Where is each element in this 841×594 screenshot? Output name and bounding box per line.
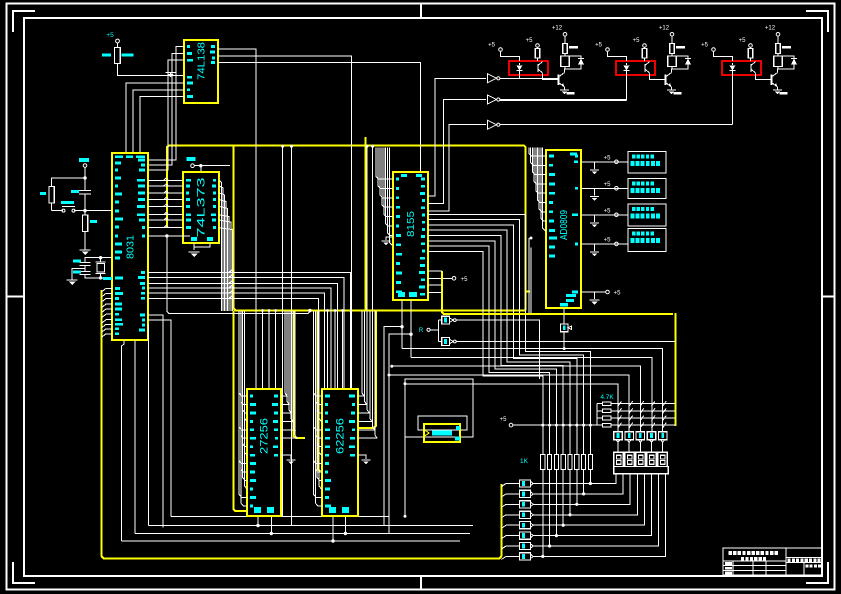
wire bank R5 to riser — [533, 535, 556, 537]
wire bundle 8031 P0 to 74L373 — [148, 179, 183, 181]
wire bank R5 to bus — [502, 536, 520, 539]
svg-text:+5: +5 — [488, 43, 496, 49]
wire 8155 PB0 to inverter 1 — [428, 78, 486, 196]
capacitor C2 — [80, 262, 91, 264]
svg-text:74L373: 74L373 — [196, 178, 208, 238]
resistor R1 pull-up — [115, 48, 121, 64]
wire inverter1 output to opto1 — [500, 77, 559, 79]
ground transistor emitter — [773, 89, 782, 91]
wire bank R4 to riser — [533, 524, 563, 526]
svg-text:+5: +5 — [595, 43, 603, 49]
wire bundle 62256 right pins — [358, 311, 364, 396]
svg-text:8155: 8155 — [406, 210, 417, 237]
U7 bottom pin marks — [254, 507, 261, 513]
center tick bottom — [420, 576, 422, 590]
wire bundle 8155 left pins from bus — [376, 148, 393, 180]
sensor box 1 — [628, 179, 666, 199]
LED display common strip — [614, 467, 669, 474]
svg-text:8031: 8031 — [125, 235, 136, 259]
node reset top — [83, 176, 86, 179]
title block divider vertical — [785, 548, 787, 575]
wire junction to left rail — [384, 327, 402, 526]
wire AD0809 analog input IN1 — [581, 187, 628, 189]
wire bottom long rail 4 — [122, 540, 461, 542]
wire collector up — [777, 67, 780, 73]
U5 bottom pin mark — [560, 303, 568, 307]
wire 74L373 ground pins — [193, 243, 195, 250]
IC U1 body — [112, 153, 148, 340]
wire R to gates — [430, 329, 438, 331]
U7 pin marks right — [274, 395, 278, 398]
relay coil — [564, 54, 566, 57]
wire hops P2 bundle over bus — [229, 270, 234, 272]
IC U7 body — [247, 389, 281, 516]
optocoupler red box — [509, 61, 548, 75]
network resistors to display bus — [603, 402, 612, 406]
wire bottom long rail 1 — [171, 515, 390, 517]
ground sensor 1 — [594, 188, 596, 195]
U5 bottom-right labels — [566, 294, 576, 297]
flyback diode — [565, 56, 581, 59]
opto LED — [626, 63, 628, 65]
optocoupler red box — [616, 61, 655, 75]
svg-text:+5: +5 — [701, 43, 709, 49]
title block left columns — [732, 561, 734, 575]
crossing hops resistor network — [618, 401, 622, 406]
ground AD0809 bottom — [594, 292, 596, 299]
capacitor C1 electrolytic — [84, 178, 86, 191]
U3 bottom pin marks — [191, 237, 197, 241]
wire cap middle node — [84, 266, 86, 272]
wire U2 Y2 output to 8155 CE — [218, 63, 420, 173]
wire bank R7 to riser — [533, 555, 543, 557]
wire pull-up to phototransistor collector — [644, 58, 646, 61]
VCC terminal 74L373 — [187, 157, 196, 161]
svg-text:27256: 27256 — [259, 418, 271, 454]
corner mark top-right — [806, 11, 828, 32]
svg-text:+5: +5 — [633, 38, 641, 44]
transistor Q npn — [771, 75, 773, 86]
wire opto emitter to transistor base — [543, 74, 559, 80]
ground 8155 left — [386, 237, 393, 240]
resistor bank R2 — [520, 501, 531, 508]
transistor Q npn — [665, 75, 667, 86]
resistor bank R7 — [520, 553, 531, 560]
svg-text:+5: +5 — [526, 38, 534, 44]
svg-text:4.7K: 4.7K — [600, 394, 614, 401]
wire data bus vertical C — [366, 147, 368, 311]
wire U2 A input from 8031 — [148, 47, 184, 160]
bus: vertical tap right of 62256 — [358, 311, 376, 429]
wire bank R1 to riser — [533, 493, 583, 495]
title block date text — [806, 565, 809, 568]
title block project name text line2 — [741, 557, 744, 560]
wire bottom long rail 2 — [149, 525, 473, 527]
svg-text:+5: +5 — [614, 291, 622, 297]
wire bank R7 to bus — [502, 556, 520, 559]
wire inverter2 output — [500, 99, 627, 101]
wire bundle 27256 right pins — [281, 311, 287, 396]
sensor box 2 — [628, 204, 666, 226]
corner mark top-left — [13, 11, 35, 32]
wire 8155 PC stubs to port bus — [428, 270, 442, 272]
VCC label reset circuit — [79, 158, 89, 162]
svg-text:AD0809: AD0809 — [559, 210, 570, 240]
module pin marks — [456, 426, 460, 430]
wire 8155 Vcc to +5 terminal — [428, 277, 452, 279]
node reset mid — [83, 209, 86, 212]
wire bundle 8031 P2 to 62256 — [148, 272, 351, 389]
wire 74L373 latch outputs down to memory bus — [219, 180, 222, 311]
wire bank R3 to bus — [502, 515, 520, 518]
wire opto emitter to transistor base — [756, 74, 772, 80]
U4 pin marks left — [396, 178, 399, 181]
U3 pin marks right — [213, 179, 216, 182]
wire emitter to ground — [671, 87, 673, 90]
push button S1 — [52, 210, 64, 212]
wire bundle digit select lines — [402, 349, 663, 433]
ground transistor emitter — [667, 89, 676, 91]
svg-text:+5: +5 — [106, 32, 114, 39]
wire inverter3 output — [500, 124, 733, 126]
bus: main address/data bus top horizontal — [167, 146, 526, 311]
wire pull-up to phototransistor collector — [750, 58, 752, 61]
wire R2 down — [51, 203, 53, 211]
wire XTAL1 pin — [85, 275, 112, 278]
wire node to RST pin — [85, 210, 112, 212]
wire 62256 bottom pin stub — [344, 516, 346, 534]
wire LED cathode drive — [732, 75, 734, 125]
inverter buffer 1 — [488, 74, 497, 83]
wire 8155 bottom pin 2 down — [410, 300, 412, 358]
center tick left — [7, 296, 25, 298]
wire AD0809 analog input IN3 — [581, 243, 628, 245]
node ALE branch — [308, 309, 311, 312]
wire gate A output — [456, 320, 539, 379]
wire pull-up to phototransistor collector — [537, 58, 539, 61]
corner mark bottom-left — [13, 562, 35, 583]
ground 27256 output enable — [281, 455, 291, 459]
wire 8031 P3 to bottom rail 1 — [148, 315, 163, 528]
wire caps to ground — [72, 269, 85, 281]
wire 8031 bottom pin down 2 — [134, 340, 136, 534]
ground sensor 3 — [594, 244, 596, 251]
node 8155 pin2 junction — [409, 333, 412, 336]
bus: right vertical display bus — [674, 313, 676, 426]
wire bank R0 to riser — [533, 483, 590, 485]
ground transistor emitter — [560, 89, 569, 91]
IC U3 body — [183, 172, 219, 243]
center tick right — [822, 296, 835, 298]
ground at 74L138 enable — [170, 73, 172, 76]
wire 27256 bottom pin stub — [270, 516, 272, 534]
wire module left down to rail — [404, 437, 406, 516]
wire +5 to resistor — [117, 43, 119, 48]
wire bundle 8155 PA segment lines — [428, 214, 590, 425]
segment resistor columns — [541, 424, 544, 427]
resistor opto pull-up — [535, 49, 539, 59]
wire hops P0 bundle over bus — [164, 178, 169, 180]
svg-text:+12: +12 — [552, 26, 563, 32]
svg-text:+5: +5 — [604, 155, 612, 161]
wire AD0809 analog input IN0 — [581, 161, 628, 163]
wire ALE 8031 to latch — [148, 235, 190, 237]
resistor R3 — [84, 211, 86, 215]
wire 27256 bottom pin stub 2 — [257, 516, 259, 526]
wire bank R6 to bus — [502, 546, 520, 549]
U5 pin marks right — [575, 155, 578, 158]
node 8155 pin1 junction — [400, 325, 403, 328]
title block right rows — [786, 557, 822, 559]
U8 pin marks left — [325, 395, 330, 398]
title block small row texts — [725, 562, 732, 565]
wire LED cathode drive — [519, 75, 521, 78]
opto phototransistor — [750, 64, 752, 72]
wire AD0809 ref+ bottom — [581, 291, 606, 293]
driver gate B — [442, 338, 450, 346]
resistor bank R5 — [520, 532, 531, 539]
module M1 label — [432, 431, 452, 436]
svg-text:1K: 1K — [520, 458, 529, 465]
wire 8031 bottom pin down 3 — [147, 325, 150, 526]
wire VCC down to node — [84, 167, 86, 178]
transistor Q npn — [558, 75, 560, 86]
title block project name text line1 — [729, 551, 732, 555]
resistor relay — [777, 36, 779, 43]
U1 pin labels right side — [138, 159, 145, 162]
ground reset circuit — [80, 249, 91, 251]
optocoupler red box — [722, 61, 761, 75]
wire bank R3 to riser — [533, 514, 570, 516]
wire R3 to ground — [84, 232, 86, 251]
title block frame — [723, 548, 822, 575]
inverter buffer 3 — [488, 120, 497, 129]
transistor driver below AD0809 — [563, 308, 565, 324]
flyback diode — [778, 56, 794, 59]
U5 pin marks left — [549, 155, 554, 158]
wire bundle 27256 left pins — [239, 311, 247, 396]
svg-text:74L138: 74L138 — [196, 42, 207, 80]
wire gate B output — [456, 341, 675, 343]
capacitor C3 — [80, 271, 91, 273]
wire 62256 bottom pin stub 2 — [332, 516, 334, 541]
wire bank R0 to bus — [502, 484, 520, 487]
svg-text:62256: 62256 — [335, 418, 347, 454]
sensor box 3 — [628, 229, 666, 252]
IC U8 body — [322, 389, 358, 516]
wire U2 Y0 output to 27256 CE — [218, 49, 256, 389]
wire bundle 62256 left pins — [314, 311, 323, 396]
wire bank R6 to riser — [533, 545, 549, 547]
bus: vertical tap to 62256 left — [318, 311, 320, 472]
wire 8155 PB2 to inverter 3 — [428, 125, 486, 211]
opto phototransistor — [644, 64, 646, 72]
wire U2 B input from 8031 — [148, 53, 184, 165]
relay coil — [777, 54, 779, 57]
bus: vertical tap left of 8155 — [365, 137, 367, 311]
svg-text:+5: +5 — [604, 182, 612, 188]
node 62256 gnd rail — [344, 532, 347, 535]
title block right column — [803, 563, 805, 576]
wire 27256 address verticals from bus — [262, 311, 264, 390]
resistor bank R4 — [520, 522, 531, 529]
wire U2 G2A to 8031 top pin — [126, 83, 184, 153]
wire +5 to LED anode — [501, 51, 520, 61]
IC U2 body — [184, 40, 218, 103]
wire data bus vertical A — [282, 147, 284, 517]
U5 top right pin tick — [570, 153, 577, 156]
U8 bottom pin marks — [329, 507, 336, 513]
wire U2 G2B to 8031 top pin — [133, 90, 184, 153]
wire 74L373 VCC/OE — [194, 165, 230, 167]
svg-text:+5: +5 — [604, 237, 612, 243]
LED display digit cells — [614, 452, 624, 466]
wire LED cathode drive — [626, 75, 628, 101]
wire data bus vertical B — [291, 147, 293, 526]
U2 pin labels right — [211, 45, 215, 48]
wire emitter to ground — [564, 87, 566, 90]
wire bank R4 to bus — [502, 525, 520, 528]
ground sensor 2 — [594, 215, 596, 222]
title block school text — [788, 559, 791, 563]
wire ALE branch down — [167, 236, 310, 314]
resistor bank R1 — [520, 490, 531, 497]
U4 bottom pin marks — [398, 292, 405, 297]
opto LED — [519, 63, 521, 65]
wire bank R1 to bus — [502, 494, 520, 497]
ground crystal circuit — [67, 279, 78, 281]
IC U4 body — [393, 172, 428, 300]
U4 pin marks right — [421, 178, 425, 181]
wire bottom long rail 3 — [135, 533, 470, 535]
module M1 box — [424, 424, 460, 442]
wire U2 C input from 8031 — [148, 60, 184, 170]
wire long vertical left of 8155 — [372, 147, 374, 311]
corner mark bottom-right — [806, 562, 828, 583]
wire AD0809 analog input IN2 — [581, 214, 628, 216]
wire collector up — [671, 67, 674, 73]
resistor relay — [671, 36, 673, 43]
wire +5 to LED anode — [608, 51, 627, 61]
bus: vertical drop to 27256 — [233, 311, 247, 512]
wire 62256 address verticals from bus — [327, 311, 329, 390]
resistor bank R3 — [520, 511, 531, 518]
svg-text:+5: +5 — [461, 277, 469, 283]
wire U2 G1 to 8031 top pin — [140, 97, 184, 153]
wire network common — [596, 404, 598, 426]
bus: tap nub AD0809 — [527, 291, 531, 293]
wire collector up — [564, 67, 567, 73]
wire +5 to LED anode — [714, 51, 733, 61]
module clock input mark — [424, 430, 429, 437]
inverter buffer 2 — [488, 95, 497, 104]
opto phototransistor — [537, 64, 539, 72]
wire +5 rail — [513, 424, 597, 426]
digit driver transistors — [614, 432, 622, 440]
wire XTAL2 pin — [85, 258, 112, 263]
U3 pin marks left — [186, 179, 191, 182]
U4 top pin marks — [401, 174, 407, 177]
wire bundle 8031 P1 ports to bus — [102, 288, 113, 292]
wire driver output to digit line — [563, 332, 565, 349]
wire resistor to 74L138 enable pin — [118, 64, 184, 76]
bus: vertical tap between memories — [293, 311, 305, 439]
IC U5 body — [546, 150, 581, 308]
resistor relay — [564, 36, 566, 43]
crystal Y1 — [99, 256, 102, 259]
svg-text:+5: +5 — [604, 208, 612, 214]
U8 pin marks right — [349, 395, 355, 398]
resistor bank R6 — [520, 542, 531, 549]
opto LED — [732, 63, 734, 65]
wire node to resistor R2 — [52, 178, 86, 187]
ground 62256 output enable — [358, 455, 366, 459]
bus: lower bus left run — [233, 146, 526, 311]
wire bank R2 to bus — [502, 504, 520, 507]
relay coil — [671, 54, 673, 57]
driver gate A — [442, 316, 450, 324]
resistor opto pull-up — [748, 49, 752, 59]
resistor R2 — [49, 187, 54, 203]
wire loop module outer — [405, 379, 473, 437]
bus: P1 port bus left vertical — [102, 290, 502, 558]
ground 74L373 — [189, 251, 200, 253]
center tick top — [420, 4, 422, 18]
svg-text:+12: +12 — [659, 26, 670, 32]
U1 top pin labels — [115, 156, 123, 159]
svg-text:+5: +5 — [739, 38, 747, 44]
resistor opto pull-up — [642, 49, 646, 59]
flyback diode — [672, 56, 688, 59]
wire U2 Y1 output to 62256 CE — [218, 56, 352, 389]
svg-text:+12: +12 — [765, 26, 776, 32]
U2 pin labels left — [187, 45, 190, 48]
resistor bank R0 — [520, 480, 531, 487]
wire opto emitter to transistor base — [650, 74, 666, 80]
ground sensor 0 — [594, 162, 596, 169]
wire junction2 to left rail — [389, 334, 411, 533]
wire AD0809 control verticals down — [528, 238, 530, 313]
wire bundle AD0809 left pins to bus — [529, 148, 546, 157]
title block left rows — [723, 560, 786, 562]
U1 pin labels left side — [115, 162, 121, 165]
wire emitter to ground — [777, 87, 779, 90]
svg-text:R: R — [419, 328, 424, 334]
U7 pin marks left — [250, 395, 253, 398]
wire 8155 bottom pin 1 down — [401, 300, 403, 349]
node 27256 gnd rail — [270, 532, 273, 535]
wire loop module inner — [418, 416, 467, 430]
wire 8031 bottom pin down 1 — [122, 340, 125, 541]
svg-text:+5: +5 — [500, 417, 508, 423]
wire bank R2 to riser — [533, 503, 577, 505]
wire 8155 PB1 to inverter 2 — [428, 100, 486, 204]
wire 8031 P3 to bottom rail 2 — [148, 320, 171, 516]
bus: 8155 port bus to display — [442, 271, 673, 314]
sensor box 0 — [628, 152, 666, 174]
